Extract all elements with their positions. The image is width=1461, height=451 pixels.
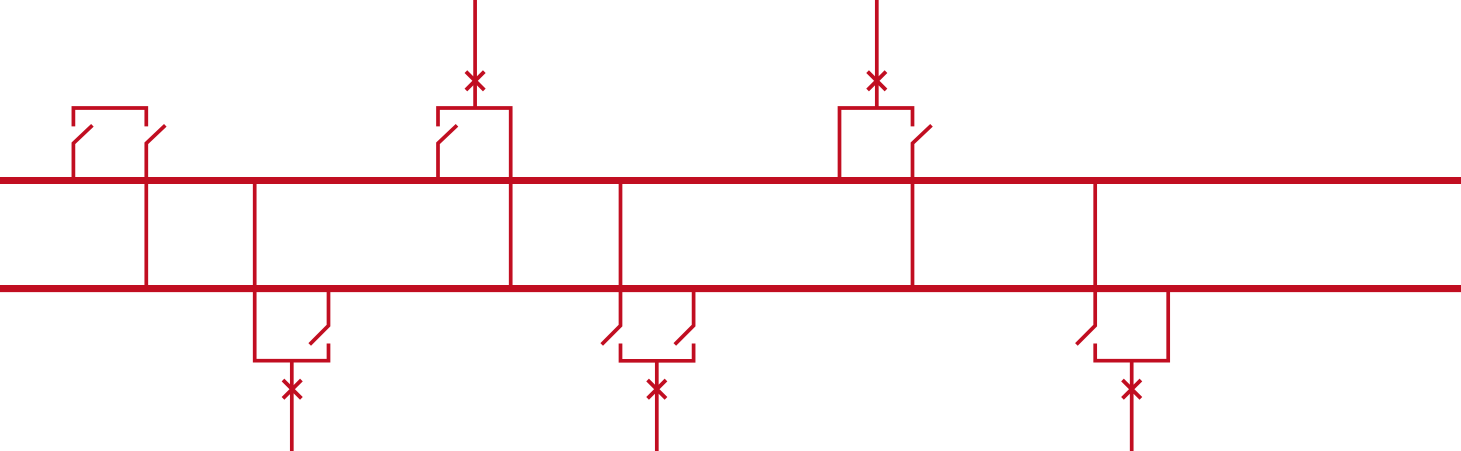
disconnector Q6 leg from upper bus and blade (F4 left switch) [602, 181, 621, 345]
feeder F3 bar (bottom, x=291.8): left leg from upper bus, bar, right stub [255, 181, 329, 361]
disconnector Q3 blade and leg to upper bus (feeder F1) [438, 125, 457, 180]
feeder F5 bar (bottom, x=1131.7): left stub, bar, right leg to lower bus [1095, 289, 1168, 361]
circuit breaker X mark of feeder F2 [868, 72, 886, 90]
bus coupler bay: bar with stubs, right leg to lower bus [73, 108, 146, 126]
feeder line F5 outgoing (bottom) [1130, 361, 1134, 451]
busbar W1 (upper bus) [0, 177, 1461, 184]
busbar W2 (lower bus) [0, 285, 1461, 292]
feeder F2 bar: left leg to upper bus, bar, right stub [840, 108, 913, 181]
feeder line F4 outgoing (bottom) [655, 361, 659, 451]
feeder line F2 incoming (top, x=876.8) [875, 0, 879, 108]
disconnector Q1 blade and leg to upper bus (coupler left switch) [73, 125, 92, 180]
circuit breaker X mark of feeder F3 [283, 380, 301, 398]
disconnector Q4 blade and leg through upper bus to lower bus (feeder F2) [913, 125, 932, 288]
circuit breaker X mark of feeder F5 [1123, 380, 1141, 398]
disconnector Q7 stub from lower bus and blade (F4 right switch) [675, 289, 694, 345]
disconnector Q5 stub from lower bus and blade (feeder F3) [310, 289, 329, 345]
feeder line F1 incoming (top, x=474.8) [473, 0, 477, 108]
circuit breaker X mark of feeder F4 [648, 380, 666, 398]
feeder line F3 outgoing (bottom) [290, 361, 294, 451]
disconnector Q8 leg from upper bus and blade (F5 left switch) [1076, 181, 1095, 345]
feeder F1 bar: left stub, bar, right leg through upper bus to lower bus [438, 108, 511, 289]
disconnector Q2 blade and leg through upper bus to lower bus (coupler right switch) [146, 125, 165, 288]
feeder F4 bar (bottom, x=656.5): stubs and bar [621, 344, 694, 361]
circuit breaker X mark of feeder F1 [466, 72, 484, 90]
